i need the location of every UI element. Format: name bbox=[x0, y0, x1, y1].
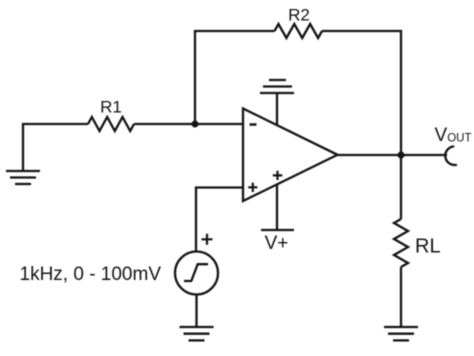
svg-text:R2: R2 bbox=[288, 6, 310, 25]
node A junction dot (inverting input) bbox=[192, 121, 199, 128]
ground at op-amp V- (inverted) bbox=[260, 80, 294, 93]
source plus polarity symbol bbox=[202, 234, 213, 245]
wire left ground riser + lead to R1 bbox=[23, 124, 88, 171]
wire R1 to inverting input bbox=[134, 123, 243, 125]
node OUT junction dot bbox=[398, 152, 405, 159]
svg-text:1kHz, 0 - 100mV: 1kHz, 0 - 100mV bbox=[20, 264, 162, 285]
op-amp U1 triangle bbox=[243, 109, 338, 202]
svg-text:VOUT: VOUT bbox=[435, 125, 472, 146]
wire RL bottom lead bbox=[400, 267, 402, 327]
wire RL top lead bbox=[400, 155, 402, 219]
wire op-amp V+ pin down bbox=[276, 184, 278, 230]
wire output bbox=[337, 154, 447, 156]
wire noninverting input bbox=[196, 188, 243, 252]
wire op-amp V- pin to ground above bbox=[276, 93, 278, 126]
source ramp symbol bbox=[184, 264, 208, 281]
wire feedback left vertical + top lead to R2 bbox=[195, 31, 275, 124]
ground below source bbox=[180, 327, 214, 340]
op-amp plus input symbol bbox=[248, 183, 257, 192]
op-amp minus symbol bbox=[250, 123, 257, 126]
wire source to ground bbox=[195, 295, 197, 328]
resistor R1 bbox=[88, 117, 134, 131]
resistor R2 bbox=[275, 24, 323, 38]
V+ terminal bar bbox=[261, 229, 294, 231]
ground right bbox=[384, 327, 418, 340]
svg-text:RL: RL bbox=[415, 236, 441, 258]
resistor RL bbox=[394, 219, 408, 267]
svg-text:R1: R1 bbox=[100, 98, 122, 117]
wire top right lead + right vertical down to output node bbox=[322, 31, 401, 155]
source V1 circle bbox=[175, 252, 218, 295]
Vout terminal arc bbox=[445, 146, 457, 165]
ground left bbox=[6, 171, 40, 184]
op-amp plus power symbol bbox=[273, 171, 283, 180]
svg-text:V+: V+ bbox=[265, 233, 289, 254]
